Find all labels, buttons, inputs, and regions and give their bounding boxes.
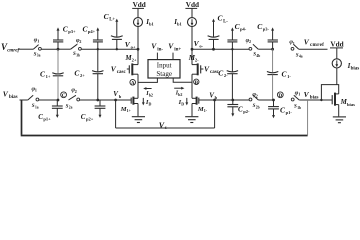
svg-text:V: V: [304, 90, 310, 99]
wire top rail right: Vo- node to CL- node: [192, 48, 214, 50]
power Vdd (far right): [330, 41, 344, 49]
svg-text:2: 2: [75, 89, 77, 94]
node label Vcmref (right): [304, 37, 324, 48]
svg-text:p2-: p2-: [243, 109, 250, 114]
svg-text:s: s: [165, 126, 167, 131]
svg-text:Vdd: Vdd: [330, 41, 343, 49]
svg-text:2-: 2-: [195, 58, 199, 63]
node D (circled, right bias rail): [277, 92, 283, 99]
svg-text:4a: 4a: [299, 55, 303, 59]
wire left branch: current source to Vo+ node and cascode drain: [137, 27, 139, 65]
svg-text:2+: 2+: [80, 73, 85, 78]
node A (circled): [130, 80, 136, 87]
node label Vb (left): [113, 90, 121, 99]
junction node (97.8,49.2): [97, 48, 99, 50]
wire Vbias drop to bottom distribution rail: [21, 100, 23, 135]
capacitor C2+ (series, below node 97.8): [74, 49, 103, 100]
node Vin+ (input terminal): [168, 42, 181, 60]
capacitor CL+ (load cap above rail with substrate arrow): [104, 12, 123, 49]
svg-text:o-: o-: [199, 43, 203, 48]
svg-text:D: D: [181, 101, 184, 106]
wire bottom rail: S1a to node x58: [39, 99, 58, 101]
svg-text:b2: b2: [149, 92, 153, 97]
wire bottom rail right: x232.8 to switch S2b: [233, 99, 251, 101]
power Vdd (left): [132, 1, 146, 9]
capacitor C2- (series, below node 232.4): [218, 49, 238, 100]
switch S2a phi2: [66, 88, 80, 110]
svg-text:1-: 1-: [287, 74, 291, 79]
current source Ib1 (left): [134, 18, 155, 27]
junction node (97.8,100): [96, 99, 99, 102]
svg-text:1-: 1-: [204, 108, 208, 113]
svg-text:b: b: [119, 94, 122, 99]
svg-text:1a: 1a: [35, 105, 39, 109]
svg-text:2+: 2+: [132, 58, 137, 63]
wire Vb left drop to Vs rail: [115, 100, 117, 128]
wire Vdd to current source Ib1 right: [191, 8, 193, 17]
svg-text:V: V: [3, 90, 9, 99]
node label Vo+: [125, 40, 136, 50]
capacitor Cp4+ (to substrate, above rail): [83, 24, 103, 49]
junction node (58,100): [57, 99, 60, 102]
svg-text:2b: 2b: [256, 106, 260, 110]
wire bottom distribution rail (Vbias): [21, 135, 308, 137]
svg-text:1+: 1+: [46, 74, 51, 79]
svg-text:p3-: p3-: [263, 27, 270, 32]
node label Vbias (right): [304, 90, 319, 101]
junction node Vb right (214.6,100): [213, 99, 216, 102]
wire bottom rail right: M1- gate to node x232.8: [199, 99, 233, 101]
wire input-stage right tail to right branch: [173, 78, 192, 82]
capacitor Cp3+ (to substrate, above rail): [53, 24, 76, 49]
capacitor CL- (load cap above rail with substrate arrow): [208, 14, 229, 50]
junction node (232.4,49.2): [231, 48, 233, 50]
svg-text:1: 1: [35, 88, 37, 93]
svg-text:2: 2: [79, 39, 81, 44]
wire bottom rail right: S2b to node x273.5: [258, 99, 273, 101]
svg-text:Stage: Stage: [156, 70, 172, 78]
wire Vb right drop to Vs rail: [214, 100, 216, 128]
svg-text:in-: in-: [157, 47, 163, 52]
svg-text:p1+: p1+: [43, 117, 51, 122]
svg-text:p1-: p1-: [286, 110, 293, 115]
wire Ibias to Mbias drain: [336, 68, 338, 85]
switch S2b phi2: [249, 92, 259, 110]
junction node Vo- (192,49.2): [191, 48, 194, 51]
svg-text:bias: bias: [310, 96, 319, 101]
switch S3b phi2 on top rail: [58, 38, 81, 58]
svg-text:C: C: [62, 93, 66, 99]
switch S1a phi1: [28, 86, 39, 109]
wire right branch: cascode source down to M1- drain: [191, 74, 193, 98]
node label Vo-: [194, 39, 204, 49]
transistor M2- (right cascode): [188, 54, 204, 75]
svg-text:bias: bias: [9, 95, 18, 100]
junction node (273.5,100): [272, 99, 275, 102]
svg-text:3a: 3a: [37, 54, 41, 58]
wire Vdd to current source Ibias: [336, 48, 338, 59]
wire top rail: x116.8 to left branch x138 (node Vo+): [117, 48, 138, 50]
node Vcmref (left terminal label): [1, 42, 20, 54]
junction node Vo+ (138,49.2): [137, 48, 140, 51]
svg-text:1: 1: [37, 39, 39, 44]
wire bottom rail: x97.8 to M1+ gate: [98, 99, 131, 101]
svg-text:2: 2: [256, 93, 258, 98]
svg-text:b2: b2: [178, 92, 182, 97]
svg-text:casc: casc: [117, 70, 127, 75]
node B (circled): [194, 79, 199, 86]
svg-text:b: b: [215, 95, 218, 100]
svg-text:b1: b1: [149, 22, 155, 27]
svg-text:A: A: [131, 80, 135, 86]
wire top rail: x97.8 to node x116.8: [98, 48, 117, 50]
wire Vdd to current source Ib1 left: [137, 8, 139, 17]
power Vdd (right): [185, 1, 199, 9]
svg-text:L-: L-: [223, 19, 228, 24]
node C (circled, left bias rail): [61, 92, 67, 99]
wire top rail right: S4a to Vcmref: [299, 48, 328, 50]
junction node (116.8,49.2): [116, 48, 118, 50]
wire right branch: current source to Vo- node and cascode drain: [191, 27, 193, 65]
wire top rail right: S4b to node x272.6: [258, 48, 272, 50]
svg-text:bias: bias: [351, 67, 360, 72]
transistor M1+ (left input/mirror device): [120, 97, 138, 117]
svg-text:D: D: [278, 93, 282, 99]
capacitor Cp2+ (parasitic below rail, to substrate): [81, 100, 106, 122]
capacitor Cp2- (parasitic below rail, to substrate): [227, 100, 250, 117]
current arrow ID (left, pointing down): [142, 98, 152, 107]
switch S1b phi1: [291, 90, 301, 110]
node Vbias (left terminal label): [3, 90, 18, 101]
svg-text:cmref: cmref: [310, 42, 324, 48]
wire top rail right: x232.4 to switch S4b: [232, 48, 250, 50]
svg-text:p2+: p2+: [86, 117, 94, 122]
svg-text:1+: 1+: [127, 108, 132, 113]
wire Mbias diode connection (gate rail up and over to drain): [321, 85, 338, 100]
svg-text:p3+: p3+: [68, 29, 76, 34]
capacitor Cp4- (to substrate, above rail): [227, 22, 246, 49]
svg-text:bias: bias: [347, 102, 355, 107]
svg-text:2-: 2-: [224, 73, 228, 78]
transistor M2+ (left cascode): [124, 54, 138, 75]
svg-text:o+: o+: [131, 44, 136, 49]
ground (under Mbias): [333, 117, 346, 123]
op-amp U1 input stage block: [148, 60, 180, 78]
wire top rail right: CL- node to x232.4: [214, 48, 233, 50]
svg-text:B: B: [195, 80, 199, 86]
current source Ibias: [332, 59, 359, 72]
svg-text:4b: 4b: [256, 54, 260, 58]
wire top rail: switch S3a to node at x58: [41, 48, 58, 50]
switch S3a phi1: [33, 37, 41, 57]
wire bottom rail: S2a to node x97.8: [80, 99, 98, 101]
node label Vcasc (right): [204, 64, 220, 75]
wire input-stage left tail to branch: [138, 78, 157, 82]
transistor M1- (right input/mirror device): [192, 97, 208, 117]
svg-text:D: D: [149, 101, 152, 106]
junction node (321.4,100): [320, 99, 322, 101]
node label Vcasc (left): [111, 64, 127, 75]
capacitor Cp3- (to substrate, above rail): [257, 22, 278, 49]
wire left branch: cascode source down to M1+ drain: [137, 74, 139, 98]
current arrow Ib2 (right, pointing right): [174, 87, 184, 97]
svg-text:p4-: p4-: [240, 27, 247, 32]
switch S4a phi1 on top rail: [289, 40, 302, 59]
ground (under M1+): [132, 117, 145, 123]
junction node (213.5,49.2): [212, 48, 215, 51]
svg-text:Input: Input: [157, 62, 172, 70]
svg-text:1: 1: [293, 41, 295, 46]
svg-text:2: 2: [249, 39, 251, 44]
junction node (58,49.2): [57, 48, 60, 51]
svg-text:V: V: [304, 37, 310, 46]
rail Vs: [116, 127, 215, 129]
node label Vs: [159, 121, 167, 131]
svg-text:in+: in+: [174, 47, 181, 52]
ground (under M1-): [185, 117, 198, 123]
current arrow ID (right, pointing down): [178, 98, 189, 107]
wire top rail: S3b to node x97.8: [81, 48, 98, 50]
wire bottom rail: Vbias to switch S1a: [20, 99, 28, 101]
wire bottom rail right: S1b to Mbias gate: [299, 99, 332, 101]
capacitor Cp1- (parasitic below rail, to substrate): [268, 100, 292, 118]
capacitor C1+ (series, below node 58): [40, 49, 64, 100]
capacitor Cp1+ (parasitic below rail, to substrate): [38, 100, 63, 122]
capacitor C1- (series, below node 272.6): [267, 49, 291, 100]
junction node (232.8,100): [231, 99, 234, 102]
transistor Mbias (diode-connected): [332, 93, 355, 117]
current arrow Ib2 (left, pointing left): [143, 87, 153, 97]
wire Vbias riser from distribution rail: [307, 100, 309, 136]
svg-text:b1: b1: [177, 22, 183, 27]
svg-text:p4+: p4+: [88, 29, 96, 34]
current source Ib1 (right): [173, 18, 196, 27]
svg-text:1: 1: [298, 92, 300, 97]
svg-text:1b: 1b: [297, 106, 301, 110]
switch S4b phi2: [246, 38, 261, 58]
svg-text:2a: 2a: [69, 106, 73, 110]
node Vin- (input terminal): [151, 42, 163, 60]
svg-text:3b: 3b: [76, 54, 80, 58]
junction node Vb left (115.6,100): [114, 99, 117, 102]
svg-text:L+: L+: [109, 18, 115, 23]
wire top-left rail from Vcmref to switch S3a: [18, 48, 34, 50]
junction node (272.6,49.2): [271, 48, 274, 51]
node label Vb (right): [209, 92, 217, 101]
